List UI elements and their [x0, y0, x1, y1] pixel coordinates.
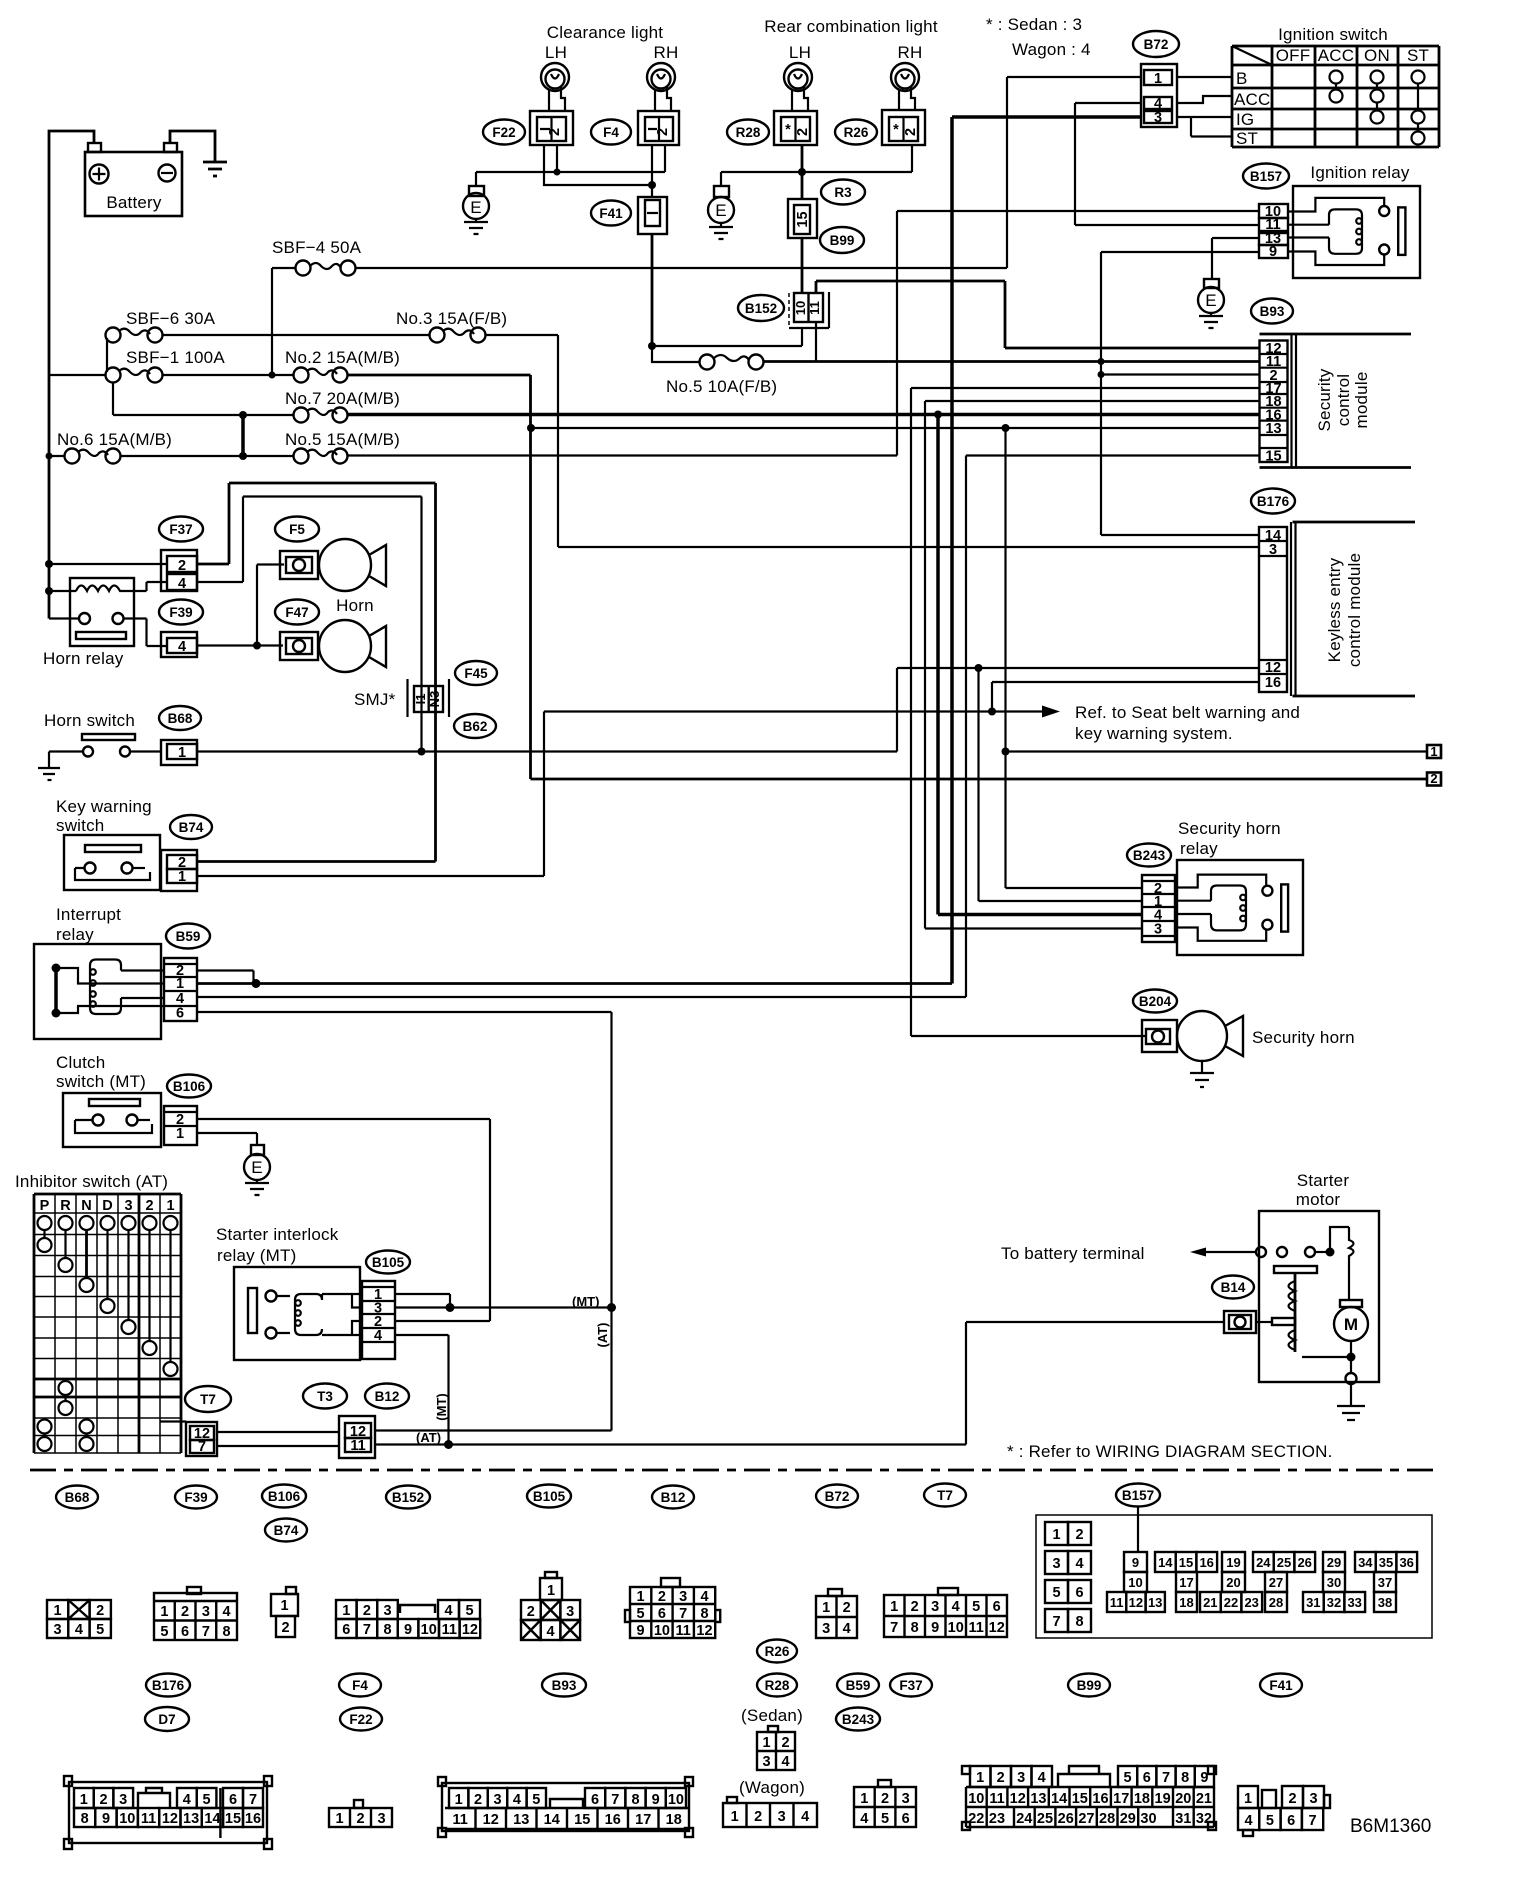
svg-text:13: 13: [1148, 1595, 1162, 1610]
svg-text:R3: R3: [834, 185, 852, 200]
svg-text:key warning system.: key warning system.: [1075, 724, 1233, 743]
svg-text:Starter interlock: Starter interlock: [216, 1225, 339, 1244]
svg-text:2: 2: [1288, 1791, 1296, 1807]
svg-text:6: 6: [902, 1811, 910, 1827]
svg-text:*: *: [893, 122, 899, 138]
svg-text:15: 15: [795, 211, 811, 227]
svg-text:1: 1: [890, 1599, 898, 1615]
svg-text:P: P: [40, 1198, 50, 1214]
svg-text:27: 27: [1078, 1811, 1094, 1827]
svg-text:35: 35: [1379, 1555, 1393, 1570]
svg-text:10: 10: [948, 1620, 964, 1636]
svg-text:2: 2: [96, 1603, 104, 1619]
svg-text:F4: F4: [352, 1678, 368, 1693]
svg-text:32: 32: [1327, 1595, 1341, 1610]
svg-text:31: 31: [1175, 1811, 1191, 1827]
svg-text:B93: B93: [1260, 304, 1285, 319]
svg-text:Horn switch: Horn switch: [44, 711, 135, 730]
svg-text:Security: Security: [1315, 368, 1334, 431]
svg-text:B74: B74: [179, 820, 204, 835]
svg-text:Ignition switch: Ignition switch: [1278, 25, 1388, 44]
svg-text:B176: B176: [152, 1678, 185, 1693]
svg-text:3: 3: [1154, 110, 1162, 126]
svg-text:SMJ*: SMJ*: [354, 690, 396, 709]
svg-text:B14: B14: [1221, 1280, 1246, 1295]
svg-text:T7: T7: [937, 1488, 953, 1503]
svg-text:12: 12: [162, 1811, 178, 1827]
svg-text:B176: B176: [1257, 494, 1290, 509]
svg-text:12: 12: [696, 1623, 712, 1639]
svg-text:(Sedan): (Sedan): [741, 1706, 803, 1725]
svg-text:4: 4: [183, 1792, 191, 1808]
svg-text:LH: LH: [545, 43, 567, 62]
svg-text:F39: F39: [184, 1490, 207, 1505]
svg-text:16: 16: [245, 1811, 261, 1827]
svg-text:24: 24: [1256, 1555, 1271, 1570]
svg-text:11: 11: [442, 1622, 457, 1638]
svg-text:4: 4: [860, 1811, 868, 1827]
svg-text:4: 4: [700, 1589, 708, 1605]
svg-text:26: 26: [1297, 1555, 1311, 1570]
svg-text:B152: B152: [745, 301, 777, 316]
svg-text:Clearance light: Clearance light: [547, 23, 663, 42]
svg-text:No.5 10A(F/B): No.5 10A(F/B): [666, 377, 777, 396]
svg-text:12: 12: [483, 1812, 499, 1828]
svg-text:7: 7: [202, 1624, 210, 1640]
svg-text:32: 32: [1196, 1811, 1212, 1827]
svg-text:18: 18: [1134, 1791, 1150, 1807]
svg-text:8: 8: [631, 1792, 639, 1808]
svg-text:20: 20: [1226, 1575, 1240, 1590]
svg-text:16: 16: [1265, 675, 1281, 691]
svg-text:relay (MT): relay (MT): [217, 1246, 296, 1265]
svg-text:5: 5: [465, 1603, 473, 1619]
svg-text:ST: ST: [1407, 46, 1429, 65]
svg-text:B12: B12: [375, 1389, 400, 1404]
svg-text:14: 14: [1051, 1791, 1067, 1807]
svg-text:2: 2: [527, 1604, 535, 1620]
svg-text:1: 1: [166, 1198, 174, 1214]
svg-text:7: 7: [1162, 1770, 1170, 1786]
svg-text:2: 2: [1075, 1527, 1083, 1543]
svg-text:2: 2: [781, 1735, 789, 1751]
svg-text:D: D: [102, 1198, 112, 1214]
svg-text:ACC: ACC: [1318, 46, 1355, 65]
svg-text:(Wagon): (Wagon): [739, 1778, 805, 1797]
svg-text:Key warning: Key warning: [56, 797, 152, 816]
svg-text:16: 16: [1199, 1555, 1213, 1570]
svg-text:2: 2: [1430, 771, 1437, 786]
svg-text:1: 1: [455, 1792, 463, 1808]
svg-text:module: module: [1352, 372, 1371, 429]
svg-text:38: 38: [1378, 1595, 1392, 1610]
svg-text:B: B: [1236, 69, 1248, 88]
svg-text:11: 11: [453, 1812, 468, 1828]
svg-text:11: 11: [350, 1438, 365, 1454]
svg-text:B105: B105: [533, 1489, 566, 1504]
svg-text:B152: B152: [392, 1490, 424, 1505]
svg-text:6: 6: [658, 1606, 666, 1622]
svg-text:2: 2: [363, 1603, 371, 1619]
svg-text:T7: T7: [200, 1392, 216, 1407]
svg-text:Keyless entry: Keyless entry: [1325, 557, 1344, 662]
svg-text:28: 28: [1269, 1595, 1283, 1610]
svg-text:2: 2: [178, 558, 186, 574]
svg-text:8: 8: [223, 1624, 231, 1640]
svg-text:F4: F4: [603, 125, 619, 140]
svg-text:19: 19: [1226, 1555, 1240, 1570]
svg-text:2: 2: [795, 128, 811, 136]
svg-text:(MT): (MT): [572, 1294, 599, 1309]
svg-text:5: 5: [1052, 1585, 1060, 1601]
svg-text:B157: B157: [1122, 1488, 1154, 1503]
svg-text:3: 3: [1052, 1556, 1060, 1572]
svg-text:12: 12: [1265, 660, 1281, 676]
svg-text:(AT): (AT): [595, 1322, 610, 1347]
svg-text:1: 1: [1430, 744, 1437, 759]
svg-text:7: 7: [249, 1792, 257, 1808]
svg-text:4: 4: [178, 639, 186, 655]
svg-text:F45: F45: [464, 666, 488, 681]
svg-text:3: 3: [778, 1809, 786, 1825]
svg-text:No.6 15A(M/B): No.6 15A(M/B): [57, 430, 172, 449]
svg-text:4: 4: [513, 1792, 521, 1808]
svg-text:5: 5: [637, 1606, 645, 1622]
svg-text:E: E: [715, 201, 727, 220]
svg-text:2: 2: [658, 1589, 666, 1605]
svg-text:relay: relay: [56, 925, 94, 944]
svg-text:11: 11: [989, 1791, 1004, 1807]
svg-text:B106: B106: [268, 1489, 301, 1504]
svg-text:16: 16: [605, 1812, 621, 1828]
svg-text:1: 1: [822, 1600, 830, 1616]
svg-text:14: 14: [204, 1811, 220, 1827]
svg-text:motor: motor: [1296, 1190, 1341, 1209]
svg-text:No.5 15A(M/B): No.5 15A(M/B): [285, 430, 400, 449]
svg-text:Rear combination light: Rear combination light: [764, 17, 938, 36]
svg-text:4: 4: [75, 1622, 83, 1638]
svg-text:1: 1: [160, 1604, 168, 1620]
svg-text:1: 1: [178, 745, 186, 761]
svg-text:1: 1: [1244, 1791, 1252, 1807]
svg-text:12: 12: [1129, 1595, 1143, 1610]
svg-text:5: 5: [972, 1599, 980, 1615]
svg-text:1: 1: [54, 1603, 62, 1619]
svg-text:B72: B72: [825, 1489, 850, 1504]
svg-text:2: 2: [474, 1792, 482, 1808]
svg-text:19: 19: [1155, 1791, 1171, 1807]
svg-text:1: 1: [178, 869, 186, 885]
svg-text:OFF: OFF: [1276, 46, 1311, 65]
svg-text:No.2 15A(M/B): No.2 15A(M/B): [285, 348, 400, 367]
svg-text:switch (MT): switch (MT): [56, 1072, 146, 1091]
svg-text:5: 5: [202, 1792, 210, 1808]
svg-text:16: 16: [1092, 1791, 1108, 1807]
svg-text:relay: relay: [1180, 839, 1218, 858]
svg-text:(AT): (AT): [416, 1430, 441, 1445]
svg-text:To battery terminal: To battery terminal: [1001, 1244, 1145, 1263]
svg-text:17: 17: [635, 1812, 651, 1828]
svg-text:6: 6: [1075, 1585, 1083, 1601]
svg-text:3: 3: [383, 1603, 391, 1619]
svg-text:6: 6: [181, 1624, 189, 1640]
svg-text:F22: F22: [349, 1712, 372, 1727]
svg-text:5: 5: [881, 1811, 889, 1827]
svg-text:36: 36: [1399, 1555, 1413, 1570]
svg-text:B93: B93: [552, 1678, 577, 1693]
svg-text:12: 12: [1010, 1791, 1026, 1807]
svg-text:3: 3: [1269, 542, 1277, 558]
svg-text:Security horn: Security horn: [1252, 1028, 1355, 1047]
svg-text:2: 2: [655, 128, 671, 136]
svg-text:2: 2: [881, 1791, 889, 1807]
svg-text:15: 15: [1265, 449, 1281, 465]
svg-text:RH: RH: [898, 43, 923, 62]
svg-text:ACC: ACC: [1234, 90, 1271, 109]
svg-text:7: 7: [1308, 1813, 1316, 1829]
svg-text:10: 10: [793, 301, 808, 315]
svg-text:7: 7: [679, 1606, 687, 1622]
svg-text:F47: F47: [285, 605, 308, 620]
svg-text:No.3 15A(F/B): No.3 15A(F/B): [396, 309, 507, 328]
svg-text:1: 1: [1154, 71, 1162, 87]
svg-text:R28: R28: [765, 1678, 790, 1693]
svg-text:3: 3: [493, 1792, 501, 1808]
svg-text:B204: B204: [1139, 994, 1172, 1009]
svg-text:30: 30: [1140, 1811, 1156, 1827]
svg-text:RH: RH: [654, 43, 679, 62]
svg-text:12: 12: [462, 1622, 478, 1638]
svg-text:(MT): (MT): [434, 1393, 449, 1420]
svg-text:7: 7: [890, 1620, 898, 1636]
svg-text:R: R: [60, 1198, 71, 1214]
svg-text:1: 1: [80, 1792, 88, 1808]
svg-text:F41: F41: [1269, 1678, 1293, 1693]
svg-text:21: 21: [1203, 1595, 1217, 1610]
svg-text:7: 7: [611, 1792, 619, 1808]
svg-text:B243: B243: [1133, 848, 1166, 863]
svg-text:F41: F41: [599, 206, 623, 221]
svg-text:4: 4: [781, 1754, 789, 1770]
svg-text:1: 1: [762, 1735, 770, 1751]
svg-text:1: 1: [637, 1589, 645, 1605]
svg-text:2: 2: [547, 128, 563, 136]
svg-text:5: 5: [1124, 1770, 1132, 1786]
svg-text:9: 9: [1269, 244, 1277, 260]
svg-text:13: 13: [1265, 421, 1281, 437]
svg-text:B243: B243: [842, 1712, 875, 1727]
svg-text:4: 4: [223, 1604, 231, 1620]
svg-text:20: 20: [1175, 1791, 1191, 1807]
svg-text:1: 1: [176, 976, 184, 992]
svg-text:* : Sedan : 3: * : Sedan : 3: [986, 15, 1082, 34]
svg-text:1: 1: [860, 1791, 868, 1807]
svg-text:6: 6: [591, 1792, 599, 1808]
svg-text:B68: B68: [65, 1490, 90, 1505]
svg-text:9: 9: [652, 1792, 660, 1808]
svg-text:B59: B59: [176, 929, 201, 944]
svg-text:15: 15: [1072, 1791, 1088, 1807]
svg-text:3: 3: [902, 1791, 910, 1807]
svg-text:4: 4: [1038, 1770, 1046, 1786]
svg-text:SBF−1 100A: SBF−1 100A: [126, 348, 225, 367]
svg-text:37: 37: [1378, 1575, 1392, 1590]
svg-text:F37: F37: [169, 522, 192, 537]
svg-text:12: 12: [989, 1620, 1005, 1636]
svg-text:N: N: [81, 1198, 91, 1214]
svg-text:11: 11: [1110, 1595, 1124, 1610]
svg-text:9: 9: [931, 1620, 939, 1636]
svg-text:14: 14: [1158, 1555, 1173, 1570]
svg-text:10: 10: [119, 1811, 135, 1827]
svg-text:5: 5: [160, 1624, 168, 1640]
svg-text:4: 4: [952, 1599, 960, 1615]
svg-text:11: 11: [969, 1620, 984, 1636]
svg-text:3: 3: [202, 1604, 210, 1620]
svg-text:17: 17: [1179, 1575, 1193, 1590]
svg-text:R26: R26: [844, 125, 869, 140]
svg-text:1: 1: [1052, 1527, 1060, 1543]
svg-text:1: 1: [342, 1603, 350, 1619]
svg-text:9: 9: [404, 1622, 412, 1638]
svg-text:9: 9: [1200, 1770, 1208, 1786]
svg-text:F39: F39: [169, 605, 192, 620]
svg-text:22: 22: [968, 1811, 984, 1827]
svg-text:T3: T3: [317, 1389, 333, 1404]
svg-text:1: 1: [280, 1598, 288, 1614]
svg-text:B68: B68: [168, 711, 193, 726]
svg-text:23: 23: [989, 1811, 1005, 1827]
svg-text:8: 8: [700, 1606, 708, 1622]
svg-text:I1: I1: [413, 694, 428, 705]
svg-text:27: 27: [1269, 1575, 1283, 1590]
svg-text:5: 5: [96, 1622, 104, 1638]
svg-text:21: 21: [1196, 1791, 1212, 1807]
svg-text:7: 7: [363, 1622, 371, 1638]
svg-text:Ref. to Seat belt warning and: Ref. to Seat belt warning and: [1075, 703, 1300, 722]
svg-text:10: 10: [654, 1623, 670, 1639]
svg-text:SBF−4 50A: SBF−4 50A: [272, 238, 362, 257]
svg-text:B59: B59: [846, 1678, 871, 1693]
svg-text:26: 26: [1058, 1811, 1074, 1827]
svg-text:6: 6: [1143, 1770, 1151, 1786]
svg-text:3: 3: [1017, 1770, 1025, 1786]
svg-text:4: 4: [1075, 1556, 1083, 1572]
svg-text:8: 8: [911, 1620, 919, 1636]
svg-text:9: 9: [102, 1811, 110, 1827]
svg-text:6: 6: [993, 1599, 1001, 1615]
svg-text:B105: B105: [372, 1255, 405, 1270]
svg-text:6: 6: [176, 1006, 184, 1022]
svg-text:B99: B99: [830, 233, 855, 248]
svg-text:13: 13: [513, 1812, 529, 1828]
svg-text:25: 25: [1037, 1811, 1053, 1827]
svg-text:10: 10: [1128, 1575, 1142, 1590]
svg-text:Horn relay: Horn relay: [43, 649, 124, 668]
svg-text:B72: B72: [1144, 37, 1169, 52]
svg-text:10: 10: [968, 1791, 984, 1807]
svg-text:11: 11: [141, 1811, 156, 1827]
svg-text:31: 31: [1306, 1595, 1320, 1610]
svg-text:18: 18: [1179, 1595, 1193, 1610]
svg-text:14: 14: [544, 1812, 560, 1828]
svg-text:4: 4: [374, 1328, 382, 1344]
svg-text:2: 2: [99, 1792, 107, 1808]
svg-text:3: 3: [679, 1589, 687, 1605]
svg-text:B12: B12: [661, 1490, 686, 1505]
svg-text:B106: B106: [173, 1079, 206, 1094]
svg-text:control: control: [1334, 374, 1353, 426]
svg-text:B74: B74: [274, 1523, 299, 1538]
svg-text:3: 3: [931, 1599, 939, 1615]
svg-text:3: 3: [1309, 1791, 1317, 1807]
svg-text:22: 22: [1224, 1595, 1238, 1610]
svg-text:2: 2: [843, 1600, 851, 1616]
svg-text:4: 4: [843, 1621, 851, 1637]
svg-text:11: 11: [807, 301, 822, 315]
svg-text:F5: F5: [289, 522, 305, 537]
svg-text:10: 10: [668, 1792, 684, 1808]
svg-text:F22: F22: [492, 125, 515, 140]
svg-text:R28: R28: [736, 125, 761, 140]
svg-text:6: 6: [229, 1792, 237, 1808]
svg-text:8: 8: [81, 1811, 89, 1827]
svg-text:M: M: [1344, 1315, 1358, 1334]
svg-text:3: 3: [54, 1622, 62, 1638]
svg-text:18: 18: [666, 1812, 682, 1828]
svg-text:ST: ST: [1236, 129, 1258, 148]
svg-text:3: 3: [1154, 922, 1162, 938]
svg-text:3: 3: [762, 1754, 770, 1770]
svg-text:Ignition relay: Ignition relay: [1310, 163, 1409, 182]
svg-text:8: 8: [1075, 1614, 1083, 1630]
svg-text:switch: switch: [56, 816, 104, 835]
svg-text:2: 2: [356, 1811, 364, 1827]
svg-text:SBF−6 30A: SBF−6 30A: [126, 309, 216, 328]
svg-text:13: 13: [183, 1811, 199, 1827]
svg-text:6: 6: [1287, 1813, 1295, 1829]
svg-text:IG: IG: [1236, 110, 1254, 129]
svg-text:29: 29: [1327, 1555, 1341, 1570]
svg-text:4: 4: [1245, 1813, 1253, 1829]
svg-text:6: 6: [342, 1622, 350, 1638]
svg-text:2: 2: [181, 1604, 189, 1620]
svg-text:3: 3: [119, 1792, 127, 1808]
svg-text:B62: B62: [463, 719, 488, 734]
svg-text:3: 3: [566, 1604, 574, 1620]
svg-text:4: 4: [178, 576, 186, 592]
svg-text:2: 2: [903, 128, 919, 136]
svg-text:25: 25: [1277, 1555, 1291, 1570]
svg-text:3: 3: [377, 1811, 385, 1827]
svg-text:2: 2: [754, 1809, 762, 1825]
svg-text:control module: control module: [1345, 553, 1364, 667]
svg-text:Clutch: Clutch: [56, 1053, 105, 1072]
svg-text:3: 3: [822, 1621, 830, 1637]
svg-text:Inhibitor switch (AT): Inhibitor switch (AT): [15, 1172, 168, 1191]
svg-text:9: 9: [637, 1623, 645, 1639]
svg-text:Starter: Starter: [1297, 1171, 1350, 1190]
svg-text:8: 8: [383, 1622, 391, 1638]
svg-text:2: 2: [997, 1770, 1005, 1786]
svg-text:11: 11: [676, 1623, 691, 1639]
svg-text:17: 17: [1113, 1791, 1129, 1807]
svg-text:D7: D7: [158, 1712, 175, 1727]
svg-text:ON: ON: [1364, 46, 1390, 65]
svg-text:E: E: [470, 198, 482, 217]
svg-text:2: 2: [145, 1198, 153, 1214]
svg-text:3: 3: [124, 1198, 132, 1214]
